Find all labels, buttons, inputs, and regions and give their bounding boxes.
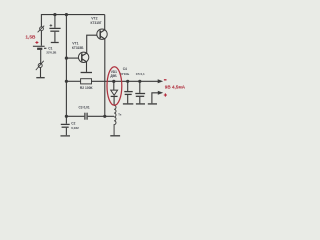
battery G1 positive plate [33, 45, 45, 47]
output arrow plus [158, 91, 163, 95]
terminal clip X1 [40, 27, 44, 31]
diode VD1 triangle [111, 90, 118, 95]
transformer T1 winding [114, 105, 116, 135]
common terminal bar (T1 bottom) [110, 135, 120, 137]
terminal clip X2 [38, 63, 42, 67]
wire VD1 bottom stub [113, 97, 115, 106]
VT1 collector wire up to VT2 base [82, 53, 87, 56]
wire mid rail to minus output [91, 80, 158, 82]
svg-text:1,5В: 1,5В [25, 34, 36, 40]
output arrow minus [158, 79, 163, 83]
svg-text:КТ315Г: КТ315Г [91, 21, 102, 25]
capacitor C2 plates [61, 123, 70, 125]
red plus at bottom output [164, 93, 167, 96]
svg-text:С5 0,1: С5 0,1 [136, 72, 145, 76]
svg-text:С3 0,01: С3 0,01 [78, 105, 89, 109]
wire R2 left [66, 80, 80, 82]
capacitor C1 plates [49, 27, 60, 29]
capacitor C3 plates [84, 113, 86, 120]
wire VT2 collector to top rail [100, 30, 105, 33]
wire battery to clip X2 [40, 50, 42, 64]
wire C4 top stub [127, 81, 129, 91]
common terminal bar (C1) [51, 41, 59, 43]
junction top rail / C1 [53, 13, 56, 16]
junction C3 wire left [65, 115, 68, 118]
junction C5 / mid rail [138, 80, 141, 83]
red plus at battery [35, 41, 38, 44]
junction VD1 / mid rail [112, 80, 115, 83]
svg-text:R2 100К: R2 100К [80, 86, 94, 90]
red minus at top output [164, 79, 167, 81]
wire C3 right to winding tap [88, 115, 114, 117]
capacitor C4 plates [124, 91, 132, 93]
common terminal bar (battery minus) [36, 77, 44, 79]
transistor VT2 body [97, 29, 107, 39]
VT2 emitter wire down [100, 36, 105, 39]
wire VD1 top stub [113, 81, 115, 90]
wire VT1 base [66, 57, 78, 59]
junction VT2 emitter / C3 wire [103, 115, 106, 118]
svg-text:9В 4,5мА: 9В 4,5мА [165, 85, 186, 90]
battery G1 negative plate [37, 48, 42, 50]
wire battery top drop [40, 14, 42, 27]
junction R2 left [65, 80, 68, 83]
svg-text:С4: С4 [123, 67, 127, 71]
svg-text:Тн: Тн [118, 113, 122, 117]
junction VT1 base [65, 56, 68, 59]
wire C1 top stub [54, 15, 56, 28]
wire C2 bottom stub [65, 128, 67, 135]
red ellipse around VD1 [107, 67, 122, 106]
common terminal bar (C4) [123, 103, 133, 105]
wire C5 top stub [139, 81, 141, 93]
svg-text:22'6,3В: 22'6,3В [46, 51, 56, 55]
wire top rail [41, 14, 104, 16]
common terminal bar (C5) [136, 103, 145, 105]
wire C1 bottom stub [54, 32, 56, 42]
wire plus output corner [152, 93, 158, 104]
common terminal bar (C2) [60, 135, 70, 137]
wire clip X2 down [39, 67, 41, 77]
svg-text:КТ315Б: КТ315Б [72, 46, 84, 50]
C1 plus mark [50, 24, 53, 27]
wire C5 bottom stub [139, 97, 141, 103]
svg-text:VT1: VT1 [72, 41, 78, 45]
common terminal bar (plus output) [148, 103, 157, 105]
svg-text:Д9Б: Д9Б [110, 74, 117, 78]
transistor VT1 body [78, 52, 88, 62]
wire clip X1 to battery [40, 31, 42, 46]
svg-text:0,022: 0,022 [71, 126, 79, 130]
junction C4 / mid rail [126, 80, 129, 83]
resistor R2 body [81, 79, 92, 84]
common terminal bar (VT1 emitter) [81, 71, 92, 73]
C1 minus mark [44, 47, 46, 49]
wire C3 left [66, 115, 84, 117]
wire C4 bottom stub [127, 95, 129, 103]
junction top rail / main bus [65, 13, 68, 16]
capacitor C5 plates [135, 93, 145, 95]
VT1 emitter wire [82, 59, 87, 62]
wire main left vertical bus [65, 15, 67, 124]
diode VD1 cathode bar [111, 95, 118, 97]
